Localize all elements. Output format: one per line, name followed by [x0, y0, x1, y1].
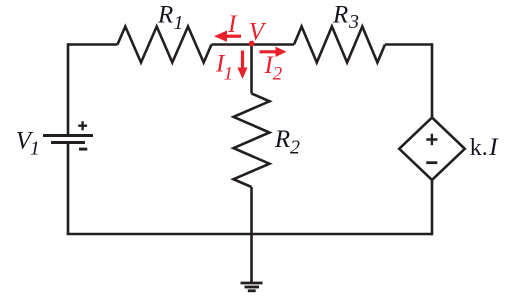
current arrow I2 (pointing right)	[260, 47, 287, 57]
label R2	[274, 126, 300, 158]
battery V1 top plate	[43, 134, 93, 137]
svg-text:2: 2	[273, 63, 283, 84]
wire node V to R3	[252, 43, 295, 46]
battery V1 bottom plate	[51, 141, 85, 144]
current arrow I (pointing left)	[214, 31, 241, 42]
svg-text:2: 2	[290, 136, 300, 158]
dependent source k.I diamond	[399, 118, 465, 181]
label I1	[215, 51, 233, 85]
dependent source minus sign	[426, 161, 437, 164]
battery minus sign	[79, 148, 87, 151]
svg-text:R: R	[332, 2, 348, 29]
resistor R1	[118, 27, 212, 63]
wire middle vertical from node to R2	[250, 45, 253, 94]
wire ground stem	[250, 234, 253, 283]
wire right vertical bottom	[431, 179, 434, 235]
wire R3 to top-right corner	[385, 43, 432, 46]
wire left vertical bottom	[67, 144, 70, 234]
dependent source plus sign	[426, 134, 437, 145]
resistor R3	[294, 27, 385, 63]
wire right vertical top	[431, 43, 434, 118]
label R3	[332, 2, 359, 34]
wire R1 to node V	[212, 43, 252, 46]
label R1	[157, 2, 184, 34]
node V dot	[249, 41, 255, 47]
battery plus sign	[78, 121, 87, 130]
label V1	[16, 127, 40, 159]
svg-text:1: 1	[174, 12, 184, 34]
wire top-left from battery to R1	[68, 43, 118, 46]
svg-text:R: R	[157, 2, 173, 29]
wire left vertical top	[67, 43, 70, 134]
wire middle vertical from R2 to bottom	[250, 187, 253, 234]
current arrow I1 (pointing down)	[237, 51, 247, 80]
svg-text:R: R	[274, 126, 290, 153]
svg-text:1: 1	[224, 64, 234, 85]
svg-text:1: 1	[30, 138, 40, 160]
label I2	[264, 52, 283, 84]
svg-text:3: 3	[348, 11, 359, 33]
ground	[241, 283, 263, 291]
resistor R2	[234, 94, 270, 188]
svg-text:k.I: k.I	[470, 134, 500, 161]
wire bottom horizontal	[67, 233, 432, 236]
